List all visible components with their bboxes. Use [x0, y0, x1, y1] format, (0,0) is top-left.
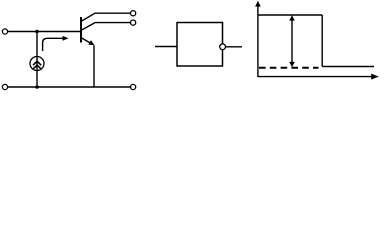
wire bottom rail: [8, 86, 131, 88]
terminal top-left: [2, 29, 7, 34]
transistor Q1 collector 1: [82, 13, 131, 21]
amplitude arrow: [289, 15, 295, 67]
waveform high level: [258, 14, 322, 16]
wire base input: [8, 31, 81, 33]
transistor Q1 collector 2: [82, 23, 131, 30]
wire emitter to bottom rail: [93, 45, 95, 87]
node base junction: [35, 30, 39, 34]
y-axis: [255, 1, 261, 77]
terminal bottom-right: [131, 84, 136, 89]
wire block input: [155, 46, 177, 48]
x-axis: [258, 74, 379, 80]
waveform low level: [322, 66, 374, 68]
node bottom junction: [35, 85, 39, 89]
terminal collector 2: [131, 20, 136, 25]
bubble on block output: [220, 44, 226, 50]
wire block output: [226, 46, 242, 48]
wire current source to bottom rail: [36, 70, 38, 87]
current source I1: [30, 57, 44, 71]
terminal bottom-left: [2, 84, 7, 89]
transistor Q1 emitter with arrow: [82, 38, 95, 45]
dashed baseline: [259, 67, 319, 69]
terminal collector 1: [131, 11, 136, 16]
block U1: [177, 23, 223, 67]
waveform falling edge: [321, 15, 323, 67]
arrow base current: [43, 36, 69, 51]
transistor Q1 base bar: [80, 17, 82, 43]
wire junction to current source: [36, 32, 38, 58]
